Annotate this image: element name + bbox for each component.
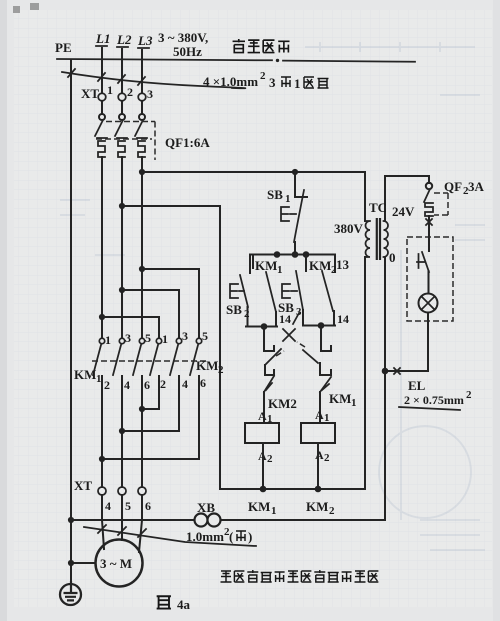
QF1 linkage dashes bbox=[96, 122, 155, 140]
equipment boundary chain line 设备界限 bbox=[57, 59, 415, 62]
svg-text:5: 5 bbox=[145, 331, 151, 345]
svg-text:3 ~ M: 3 ~ M bbox=[100, 556, 132, 571]
wire right sub-bar bbox=[303, 325, 335, 327]
faint bleedthrough artifacts bbox=[60, 42, 485, 550]
wire L2 vertical top bbox=[121, 49, 123, 93]
motor cable leader 1.0mm2 bbox=[84, 527, 256, 546]
contact SB2 NC in KM2 branch bbox=[297, 326, 331, 376]
coil KM1 bbox=[245, 423, 279, 443]
svg-text:A: A bbox=[258, 409, 267, 423]
node motor PE bbox=[68, 560, 74, 566]
svg-text:3: 3 bbox=[125, 331, 131, 345]
contactor KM2 main contact 5 bbox=[102, 338, 202, 459]
contact KM1 NC interlock bbox=[320, 377, 331, 423]
cable leader 4x1.0mm2 bbox=[62, 72, 245, 88]
breaker QF1 pole 1 bbox=[95, 114, 107, 165]
wire PE bottom rail to transformer 0 bbox=[71, 519, 385, 521]
svg-text:3: 3 bbox=[269, 75, 276, 90]
contactor KM2 main contact 1 bbox=[142, 338, 162, 409]
svg-text:KM: KM bbox=[255, 258, 277, 273]
SB3 actuator E bbox=[282, 284, 297, 298]
wire coil KM1 to return bbox=[262, 443, 264, 489]
terminal XT-3 bbox=[138, 93, 146, 101]
svg-text:0: 0 bbox=[389, 250, 396, 265]
ground symbol bbox=[60, 581, 81, 605]
lamp switch bbox=[417, 237, 429, 293]
luminaire dashed enclosure bbox=[407, 237, 453, 321]
contactor KM2 main contact 3 bbox=[122, 338, 182, 431]
node L3 KM2 feed bbox=[139, 266, 145, 272]
breaker QF1 pole 2 bbox=[115, 114, 127, 165]
node coil KM1 return bbox=[260, 486, 267, 493]
node coil KM2 return bbox=[315, 486, 322, 493]
svg-text:1: 1 bbox=[324, 412, 330, 424]
node PE bottom rail bbox=[68, 517, 74, 523]
node bar feed bbox=[292, 251, 299, 258]
node crossover b bbox=[119, 428, 125, 434]
node L1 KM2 feed bbox=[99, 314, 105, 320]
svg-text:3A: 3A bbox=[468, 179, 485, 194]
svg-text:2: 2 bbox=[260, 70, 266, 82]
wire secondary top to QF2 bbox=[385, 176, 429, 221]
svg-text:2: 2 bbox=[218, 364, 224, 376]
svg-text:6: 6 bbox=[200, 376, 206, 390]
svg-text:TC: TC bbox=[369, 200, 387, 215]
svg-text:XB: XB bbox=[197, 500, 215, 515]
caption 图4a bbox=[157, 596, 171, 608]
svg-text:2: 2 bbox=[267, 453, 273, 465]
svg-text:3: 3 bbox=[182, 329, 188, 343]
coil KM2 bbox=[301, 423, 335, 443]
svg-text:1: 1 bbox=[267, 413, 273, 425]
terminal XT-4 bbox=[98, 487, 106, 495]
svg-text:PE: PE bbox=[55, 40, 72, 55]
contactor KM1 main contact 5 bbox=[133, 338, 145, 487]
wire lamp return bbox=[385, 313, 428, 372]
motor M bbox=[96, 540, 143, 587]
wires XT to motor bbox=[102, 495, 142, 552]
svg-text:SB: SB bbox=[226, 302, 242, 317]
svg-text:3 ~ 380V,: 3 ~ 380V, bbox=[158, 30, 208, 45]
wire left sub-bar bbox=[246, 326, 277, 328]
wire control bar bbox=[250, 254, 335, 256]
node right sub-bar bbox=[318, 322, 325, 329]
wire coil KM2 to return bbox=[317, 443, 319, 489]
wire L3 vertical top bbox=[141, 50, 143, 93]
svg-text:(: ( bbox=[229, 529, 233, 544]
svg-text:KM: KM bbox=[248, 499, 270, 514]
svg-text:4 ×1.0mm: 4 ×1.0mm bbox=[203, 74, 258, 89]
svg-text:1: 1 bbox=[107, 83, 113, 97]
svg-text:4a: 4a bbox=[177, 597, 191, 612]
svg-text:2: 2 bbox=[244, 308, 250, 320]
wire L2 to KM2 pole 3 bbox=[122, 290, 179, 338]
svg-text:2 × 0.75mm: 2 × 0.75mm bbox=[404, 393, 464, 407]
svg-text:A: A bbox=[315, 448, 324, 462]
QF2 dashes bbox=[434, 193, 448, 215]
svg-text:L3: L3 bbox=[137, 33, 153, 48]
svg-text:4: 4 bbox=[105, 499, 111, 513]
svg-text:L2: L2 bbox=[116, 32, 132, 47]
wire L1 middle bbox=[101, 161, 103, 338]
svg-text:KM: KM bbox=[329, 391, 351, 406]
contactor KM1 main contact 1 bbox=[93, 338, 105, 487]
svg-text:380V: 380V bbox=[334, 221, 364, 236]
wire control rail 1 bbox=[142, 171, 365, 173]
svg-text:KM: KM bbox=[306, 499, 328, 514]
cable mark x QF2 bbox=[426, 219, 432, 225]
wire L1 vertical top bbox=[101, 48, 103, 93]
svg-text:1: 1 bbox=[105, 333, 111, 347]
svg-text:): ) bbox=[248, 529, 252, 544]
label 设备界限 bbox=[233, 39, 290, 53]
terminal XT-2 bbox=[118, 93, 126, 101]
node L2 KM2 feed bbox=[119, 287, 125, 293]
breaker QF2 bbox=[424, 183, 433, 237]
wire L2 middle bbox=[121, 161, 123, 338]
connector XB bbox=[195, 514, 208, 527]
svg-text:1: 1 bbox=[271, 505, 277, 517]
caption 图中导线截面均以铜芯绘出 bbox=[221, 570, 379, 582]
transformer TC core bbox=[377, 218, 380, 260]
svg-text:3: 3 bbox=[147, 87, 153, 101]
svg-text:XT: XT bbox=[81, 86, 99, 101]
svg-text:5: 5 bbox=[202, 329, 208, 343]
svg-text:KM: KM bbox=[74, 367, 96, 382]
svg-text:2: 2 bbox=[104, 378, 110, 392]
wire motor to PE bbox=[71, 562, 96, 564]
wire coil return line bbox=[220, 488, 364, 490]
contact KM2 NC interlock bbox=[264, 376, 274, 423]
terminal XT-5 bbox=[118, 487, 126, 495]
svg-text:XT: XT bbox=[74, 478, 92, 493]
svg-text:1: 1 bbox=[294, 76, 301, 91]
svg-text:6: 6 bbox=[144, 378, 150, 392]
pushbutton SB1 (NC stop) bbox=[294, 172, 307, 252]
SB2 actuator E bbox=[230, 284, 244, 298]
node lamp return bbox=[382, 368, 389, 375]
breaker QF1 pole 3 bbox=[135, 114, 147, 165]
node bar b bbox=[303, 251, 310, 258]
terminal XT-1 bbox=[98, 93, 106, 101]
svg-text:6: 6 bbox=[145, 499, 151, 513]
svg-text:A: A bbox=[315, 408, 324, 422]
node bar a bbox=[274, 251, 281, 258]
svg-text:2: 2 bbox=[324, 452, 330, 464]
pushbutton SB2 (NO start fwd) bbox=[240, 255, 250, 326]
transformer TC secondary coil bbox=[384, 221, 389, 257]
svg-text:1: 1 bbox=[285, 193, 291, 205]
svg-text:4: 4 bbox=[124, 378, 130, 392]
svg-text:SB: SB bbox=[267, 187, 283, 202]
svg-text:14: 14 bbox=[279, 312, 291, 326]
terminal XT-6 bbox=[138, 487, 146, 495]
svg-text:4: 4 bbox=[182, 377, 188, 391]
SB3 linkage tick bbox=[293, 313, 299, 324]
KM1 KM2 linkage dashed bbox=[92, 360, 206, 362]
wire PE vertical bbox=[70, 60, 72, 584]
svg-text:QF: QF bbox=[444, 179, 462, 194]
svg-text:14: 14 bbox=[337, 312, 349, 326]
wire L1 to KM2 pole 1 bbox=[102, 317, 159, 338]
contactor KM1 main contact 3 bbox=[113, 338, 125, 487]
node crossover a bbox=[139, 406, 145, 412]
svg-text:L1: L1 bbox=[95, 31, 110, 46]
transformer TC primary coil bbox=[365, 221, 370, 257]
svg-text:1.0mm: 1.0mm bbox=[186, 529, 224, 544]
wire secondary 0 down bbox=[384, 257, 386, 520]
svg-text:13: 13 bbox=[336, 257, 350, 272]
contact KM2 aux NO terminal 13 bbox=[322, 255, 335, 325]
pushbutton SB3 (NO start rev) bbox=[296, 255, 306, 325]
svg-text:5: 5 bbox=[125, 499, 131, 513]
wire control rail 2 to left control conductor bbox=[122, 206, 220, 489]
node L2 control feed bbox=[119, 203, 125, 209]
node SB1 tap bbox=[292, 169, 298, 175]
cable mark x EL bbox=[394, 368, 400, 374]
wire L3 middle bbox=[141, 161, 143, 338]
svg-text:1: 1 bbox=[277, 264, 283, 276]
svg-text:1: 1 bbox=[351, 397, 357, 409]
contact KM1 aux NO bbox=[253, 255, 276, 326]
wire rail to TC primary bbox=[364, 172, 366, 221]
wires XT to QF1 bbox=[102, 101, 142, 114]
svg-text:EL: EL bbox=[408, 378, 426, 393]
svg-text:1: 1 bbox=[162, 332, 168, 346]
svg-text:QF1:6A: QF1:6A bbox=[165, 135, 210, 150]
node crossover c bbox=[99, 456, 105, 462]
contact SB3 NC in KM1 branch bbox=[264, 327, 284, 375]
paper edge shading bbox=[0, 0, 7, 621]
svg-text:2: 2 bbox=[127, 85, 133, 99]
svg-text:KM: KM bbox=[196, 358, 218, 373]
linkage cross X bbox=[283, 329, 295, 341]
node left sub-bar bbox=[261, 323, 268, 330]
SB1 actuator E bbox=[281, 207, 296, 221]
node L3 control feed bbox=[139, 169, 145, 175]
svg-text:2: 2 bbox=[329, 505, 335, 517]
svg-text:KM: KM bbox=[309, 258, 331, 273]
svg-text:50Hz: 50Hz bbox=[173, 44, 202, 59]
svg-text:24V: 24V bbox=[392, 204, 415, 219]
lamp EL bbox=[419, 294, 438, 313]
svg-text:1: 1 bbox=[96, 373, 102, 385]
svg-text:2: 2 bbox=[466, 389, 472, 401]
svg-text:KM2: KM2 bbox=[268, 396, 297, 411]
wire TC primary bottom to coil return bbox=[364, 257, 366, 489]
svg-text:2: 2 bbox=[160, 377, 166, 391]
wire L3 to KM2 pole 5 bbox=[142, 269, 199, 338]
